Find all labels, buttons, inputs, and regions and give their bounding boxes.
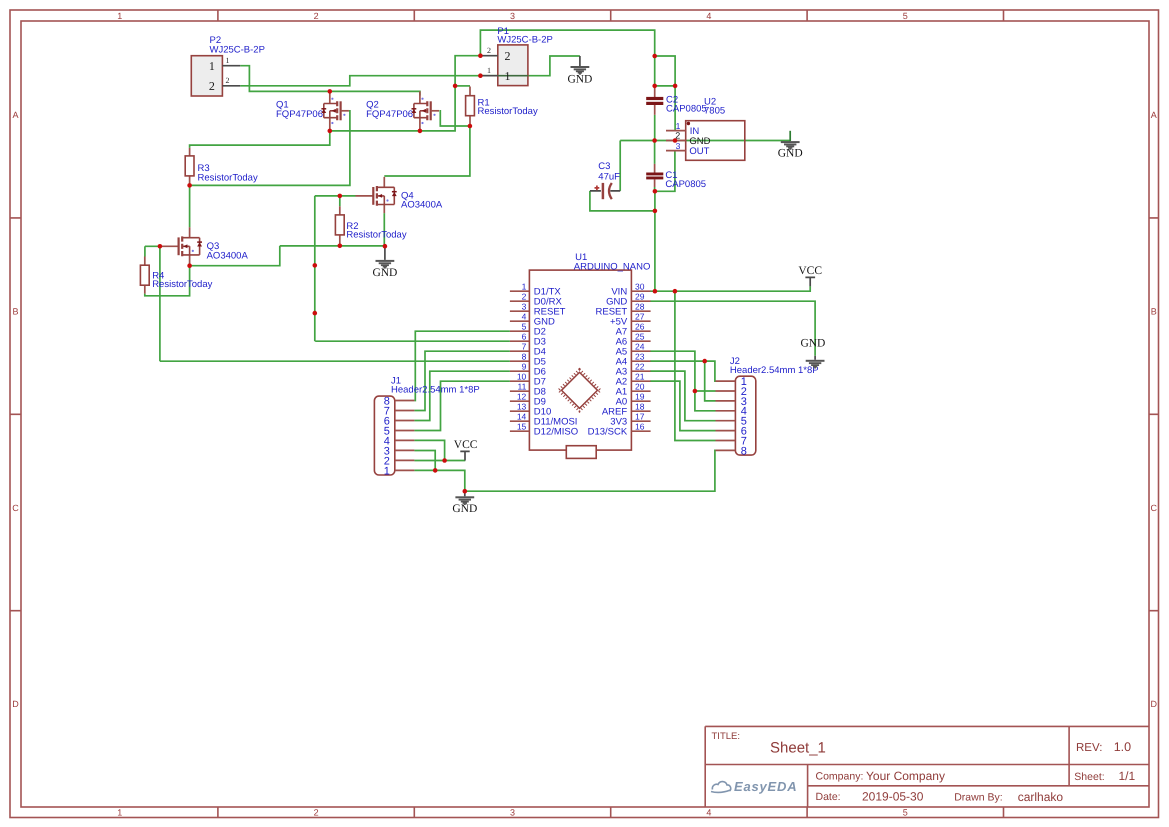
svg-text:C: C [1151,503,1158,513]
junction node P1.2/loop [478,53,483,58]
svg-text:14: 14 [517,412,527,422]
wire GND pin29 to GND flag [650,301,815,356]
junction node A5 branch J2.2 [693,389,698,394]
svg-text:3: 3 [510,807,515,817]
wire R2 top [339,196,341,206]
wire A2 to J2 pin6 [650,381,715,431]
junction node R2 bottom [338,244,343,249]
svg-text:4: 4 [522,312,527,322]
svg-text:2: 2 [226,76,230,85]
svg-text:2: 2 [505,49,511,63]
svg-text:TITLE:: TITLE: [712,731,741,742]
junction node VCC J1 [442,458,447,463]
transistor Q4 (N-MOSFET AO3400A) [356,177,443,213]
IC U1 ARDUINO_NANO [510,252,651,458]
svg-text:1.0: 1.0 [1114,740,1131,754]
wire VIN row to VCC [650,286,810,291]
ground GND top (P1) [567,56,592,85]
wire A3 to J2 pin5 [650,371,715,421]
svg-text:5: 5 [903,807,908,817]
wire Q3 gate net down to D5 [159,246,161,361]
resistor R4 [140,257,212,294]
wire D3 long row [315,340,510,342]
svg-text:1: 1 [487,66,491,75]
wire GND row down to C3 [619,141,621,191]
svg-text:D: D [1151,699,1158,709]
svg-text:1: 1 [117,807,122,817]
junction node C1 bottom [653,189,658,194]
svg-text:REV:: REV: [1076,742,1102,754]
svg-text:21: 21 [635,372,645,382]
wire GND row under Q4 [280,245,385,247]
svg-text:C: C [12,503,19,513]
svg-text:GND: GND [778,148,803,160]
junction node IN branch [673,84,678,89]
ground GND right (pin29 net) [800,338,825,369]
junction node R3 bottom / Q3 drain [187,183,192,188]
svg-text:2: 2 [314,11,319,21]
svg-text:ARDUINO_NANO: ARDUINO_NANO [574,262,651,273]
wire D6 to J1 pin6 [414,371,510,420]
svg-text:GND: GND [800,338,825,350]
svg-text:1: 1 [384,465,390,477]
svg-text:8: 8 [522,352,527,362]
capacitor C2 [646,86,706,115]
svg-text:FQP47P06: FQP47P06 [276,109,323,120]
junction node VIN A [653,289,658,294]
transistor Q1 (P-MOSFET FQP47P06) [276,91,349,130]
wire bottom GND to J2 pin8 [465,450,716,491]
svg-text:2019-05-30: 2019-05-30 [862,789,924,803]
wire R4 top [144,246,146,256]
ground GND under Q4 [372,246,397,279]
junction node U2 GND row A [652,138,657,143]
svg-text:30: 30 [635,282,645,292]
svg-text:2: 2 [487,46,491,55]
wire IN column [674,86,676,131]
junction node C3 return [653,209,658,214]
transistor Q3 (N-MOSFET AO3400A) [161,227,249,263]
svg-text:7: 7 [522,342,527,352]
wire Q1 source to R3 top [190,131,330,148]
svg-text:Header2.54mm 1*8P: Header2.54mm 1*8P [730,365,819,376]
svg-text:D: D [12,699,19,709]
title block frame [705,726,1149,807]
wire Q2 gate to R1 bottom [439,111,470,126]
svg-text:A: A [12,110,18,120]
junction node GND J1 [433,468,438,473]
svg-text:B: B [12,306,18,316]
wire Q4 gate row [315,195,356,197]
capacitor C3 (polarized 47uF) [590,161,620,199]
capacitor C1 [646,164,706,190]
svg-text:A: A [1151,110,1157,120]
svg-text:4: 4 [706,807,711,817]
power flag VCC right [798,265,822,286]
svg-text:carlhako: carlhako [1018,790,1064,804]
junction node D3 net mid 2 [313,311,318,316]
connector J1 Header2.54mm 1*8P [374,376,479,478]
U1 chip glyph [562,372,598,408]
svg-text:1: 1 [117,11,122,21]
svg-text:ResistorToday: ResistorToday [346,230,406,241]
wire A4 row [650,360,705,362]
svg-text:1: 1 [522,282,527,292]
junction node U2 GND row B [673,138,678,143]
svg-text:Sheet:: Sheet: [1074,771,1104,783]
svg-text:ResistorToday: ResistorToday [152,279,212,290]
junction node Q3 gate [158,244,163,249]
svg-text:Sheet_1: Sheet_1 [770,740,826,757]
svg-text:2: 2 [209,79,215,93]
wire J1 pin3 down [414,451,435,471]
svg-text:ResistorToday: ResistorToday [478,106,538,117]
svg-text:7805: 7805 [704,106,725,117]
wire J1 pin2 row to VCC [414,460,465,462]
junction node Q1 source [328,129,333,134]
wire U2 GND row through body to GND flag [666,140,790,142]
svg-text:6: 6 [522,332,527,342]
wire D2 to J1 pin8 [414,331,510,400]
svg-text:26: 26 [635,322,645,332]
svg-text:GND: GND [567,73,592,85]
wire P2 pin2 to P1 pin1 [240,76,498,86]
EasyEDA logo [711,782,731,793]
svg-text:WJ25C-B-2P: WJ25C-B-2P [210,44,265,55]
svg-text:16: 16 [635,422,645,432]
resistor R2 [335,206,406,246]
junction node R1 top [453,84,458,89]
svg-text:Header2.54mm 1*8P: Header2.54mm 1*8P [391,384,480,395]
wire P1 pin1 to top GND [528,56,580,76]
svg-text:GND: GND [452,503,477,515]
wire J1 pin1 row to GND corner [414,470,464,491]
svg-text:1: 1 [209,59,215,73]
junction node R1 bottom / Q2 gate [468,124,473,129]
wire column down to VIN [654,211,656,291]
wire Q3 gate left [145,245,161,247]
svg-text:18: 18 [635,402,645,412]
junction node GND bottom [463,489,468,494]
svg-text:20: 20 [635,382,645,392]
svg-text:15: 15 [517,422,527,432]
svg-text:D12/MISO: D12/MISO [534,427,578,438]
svg-text:AO3400A: AO3400A [401,200,443,211]
svg-text:3: 3 [510,11,515,21]
junction node loop top [652,54,657,59]
connector P1 [480,26,553,86]
wire A5 branch to J2 pin2 [695,390,716,392]
junction node D3 net mid 1 [313,263,318,268]
ground GND right of U2 [778,131,803,160]
wire P2 pin1 to Q1/Q2 drains [240,66,420,96]
junction node A4 branch [702,359,707,364]
svg-text:2: 2 [522,292,527,302]
wire P1 pin2 down to sources row [330,56,481,131]
svg-text:B: B [1151,306,1157,316]
svg-text:1/1: 1/1 [1119,769,1136,783]
svg-text:47uF: 47uF [598,171,620,182]
wire Q4 source down [383,213,385,246]
junction node VIN B [673,289,678,294]
wire C1 dot down [654,191,656,211]
svg-text:FQP47P06: FQP47P06 [366,109,413,120]
wire A5 to J2 pin4 [650,351,715,411]
resistor R1 [466,87,538,127]
power flag VCC left (J1) [454,439,478,461]
svg-text:2: 2 [314,807,319,817]
svg-text:11: 11 [517,382,526,392]
svg-text:EasyEDA: EasyEDA [734,779,797,794]
wire R4 bottom to Q3 source [145,263,190,296]
svg-text:CAP0805: CAP0805 [665,179,706,190]
svg-text:28: 28 [635,302,645,312]
junction node Q4 gate / R2 top [338,194,343,199]
wire J1 pin4 to VCC row [414,440,444,460]
svg-text:10: 10 [517,372,527,382]
wire C2 bottom to GND row [654,115,656,141]
svg-text:Company:: Company: [816,771,864,783]
wire P1 pin2 top loop [480,30,654,56]
svg-text:VCC: VCC [798,265,822,277]
svg-text:29: 29 [635,292,645,302]
svg-text:4: 4 [706,11,711,21]
svg-text:ResistorToday: ResistorToday [198,173,258,184]
svg-text:CAP0805: CAP0805 [666,104,707,115]
ground GND bottom (J1) [452,491,477,515]
svg-text:5: 5 [522,322,527,332]
transistor Q2 (P-MOSFET FQP47P06) [366,91,439,130]
resistor R3 [185,148,258,186]
junction node Q1 drain [328,89,333,94]
U1 bottom tab [566,446,596,459]
svg-text:24: 24 [635,342,645,352]
border column ticks bottom [218,807,1004,818]
svg-text:1: 1 [505,69,511,83]
connector P2 [191,35,265,96]
wire D7 to J1 pin5 [414,381,510,430]
wire OUT loop [655,151,675,192]
wire R1 bottom to Q4 drain [384,126,470,176]
wire Q3 source row jog [190,246,280,266]
svg-text:1: 1 [676,121,681,131]
svg-text:8: 8 [741,445,747,457]
wire loop C2 top [655,56,675,86]
svg-text:Drawn By:: Drawn By: [954,791,1002,803]
svg-text:WJ25C-B-2P: WJ25C-B-2P [497,35,552,46]
wire D5 long row [160,360,510,362]
wire C1 bottom to dot [654,187,656,191]
svg-text:1: 1 [226,56,230,65]
wire C3 bottom loop [590,191,655,211]
svg-text:5: 5 [903,11,908,21]
svg-text:23: 23 [635,352,645,362]
connector J2 Header2.54mm 1*8P [716,356,819,457]
svg-text:22: 22 [635,362,645,372]
svg-text:VCC: VCC [454,439,478,451]
svg-text:D13/SCK: D13/SCK [588,427,628,438]
svg-text:9: 9 [522,362,527,372]
junction node Q2 source [418,129,423,134]
junction node Q3 source [187,263,192,268]
wire U2 GND row [620,140,666,142]
wire C1 top [654,141,656,164]
svg-text:AO3400A: AO3400A [207,251,249,262]
svg-text:Date:: Date: [816,791,841,803]
svg-text:Your Company: Your Company [866,769,945,783]
svg-text:17: 17 [635,412,645,422]
border column ticks top [218,10,1004,21]
wire A4 to J2 pin3 [705,361,716,401]
wire R3 bottom to Q3 drain [189,185,191,227]
svg-text:3: 3 [522,302,527,312]
border row ticks right [1149,218,1159,611]
junction node P1.1 [478,73,483,78]
svg-text:GND: GND [372,267,397,279]
wire D4 to J1 pin7 [414,351,510,410]
svg-text:OUT: OUT [689,146,709,157]
svg-text:13: 13 [517,402,527,412]
wire Q1 gate down to R3 bottom [190,111,350,186]
wire branch to R1 top [455,85,470,87]
wire A4 to J2 pin1 [705,361,716,381]
border row ticks left [10,218,21,611]
svg-text:27: 27 [635,312,645,322]
svg-text:12: 12 [517,392,527,402]
wire Q4 gate net down to D3 [314,196,316,341]
wire VIN net down to J2 pin7 [675,291,716,440]
svg-text:19: 19 [635,392,645,402]
junction node GND under Q4 [383,244,388,249]
regulator U2 7805 [666,96,745,160]
svg-text:25: 25 [635,332,645,342]
junction node C2 top [652,84,657,89]
